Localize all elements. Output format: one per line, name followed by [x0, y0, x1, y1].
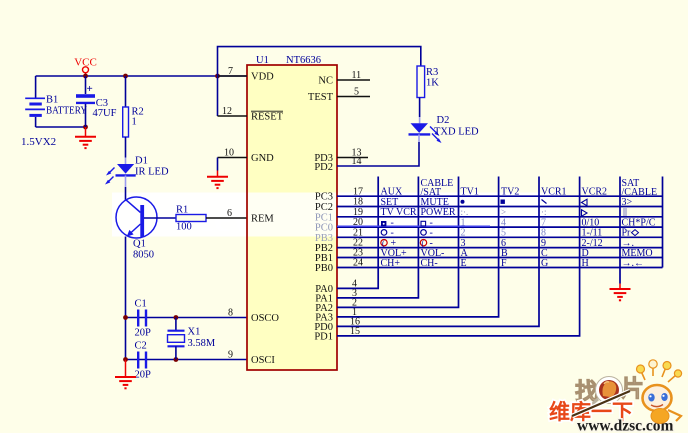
svg-text:G: G — [541, 258, 548, 269]
pin 10 GND — [218, 148, 275, 165]
table row 23 cells — [381, 248, 653, 259]
svg-text:9: 9 — [228, 350, 233, 361]
svg-text:+: + — [87, 83, 93, 95]
wire VCC to R2 — [125, 76, 127, 107]
watermark underline stroke — [337, 225, 490, 227]
ground under C3 — [75, 127, 96, 148]
wire OSCO — [126, 317, 248, 319]
resistor R2 — [123, 107, 144, 138]
wire row pin 18 PC2 — [315, 197, 663, 213]
svg-text:7: 7 — [228, 66, 233, 77]
svg-text:TV1: TV1 — [461, 186, 479, 197]
table row 18 cells — [381, 197, 633, 208]
table row 19 cells — [381, 207, 628, 218]
wire column VCR1 pin 16 PD0 — [314, 177, 539, 333]
svg-text:3.58M: 3.58M — [188, 338, 216, 349]
pin 11 NC — [318, 70, 370, 87]
pin 9 OSCI — [228, 350, 275, 367]
watermark band — [112, 193, 560, 241]
mascot — [572, 360, 682, 424]
wire row pin 20 PC0 — [315, 217, 663, 233]
svg-text:E: E — [461, 258, 467, 269]
wire row pin 24 PB0 — [315, 258, 663, 274]
wire column VCR2 pin 15 PD1 — [314, 177, 579, 343]
capacitor C1 20P — [135, 299, 152, 339]
svg-text:→.←: →.← — [622, 258, 645, 269]
table row 20 cells — [381, 217, 656, 228]
wire row pin 21 PB3 — [315, 227, 663, 243]
battery B1 — [25, 76, 87, 127]
svg-text:6: 6 — [227, 208, 232, 219]
LED D2 TXD LED — [409, 115, 480, 143]
wire column AUX pin 4 PA0 — [315, 177, 378, 295]
svg-text:CH-: CH- — [421, 258, 438, 269]
pin 12 RESET — [218, 106, 284, 123]
junction node C2 left — [123, 357, 128, 362]
resistor R1 100 — [144, 205, 206, 233]
svg-text:5: 5 — [354, 87, 359, 98]
svg-text:D1: D1 — [135, 156, 148, 167]
svg-text:TEST: TEST — [308, 92, 334, 103]
svg-text:20P: 20P — [135, 370, 152, 381]
svg-text:OSCO: OSCO — [251, 313, 279, 324]
svg-text:1.5VX2: 1.5VX2 — [21, 136, 56, 148]
wire VDD to RESET — [217, 76, 219, 116]
svg-text:VCR1: VCR1 — [541, 186, 567, 197]
watermark band over IC — [248, 193, 336, 237]
svg-text:10: 10 — [224, 148, 234, 159]
svg-text:(: ( — [422, 239, 425, 248]
svg-text:BATTERY: BATTERY — [46, 106, 87, 117]
junction node X1 bottom — [174, 357, 179, 362]
svg-text:TV2: TV2 — [501, 186, 519, 197]
svg-text:U1: U1 — [256, 55, 269, 66]
svg-text:24: 24 — [353, 258, 363, 269]
svg-text::·.: :·. — [461, 207, 469, 217]
wire VCC to R3 top rail — [218, 47, 421, 76]
crystal X1 3.58M — [168, 318, 216, 360]
wire column TV1 pin 2 PA2 — [315, 177, 458, 314]
wire OSCI — [126, 359, 248, 361]
wire R3 to D2 — [419, 98, 421, 118]
wire column CABLE/SAT pin 3 PA1 — [315, 177, 418, 305]
svg-text:47UF: 47UF — [93, 108, 117, 119]
LED D1 IR LED — [105, 156, 169, 185]
ground under SAT/CABLE column — [610, 284, 631, 301]
table row 24 cells — [381, 258, 645, 269]
pin 14 PD2 — [314, 156, 361, 173]
svg-text:·:: ·: — [541, 207, 547, 217]
wire R2 to D1 — [125, 137, 127, 158]
svg-text:R1: R1 — [176, 205, 188, 216]
svg-text:PB0: PB0 — [315, 263, 333, 274]
svg-text:15: 15 — [350, 326, 360, 337]
svg-text:REM: REM — [251, 214, 274, 225]
svg-text:VCR2: VCR2 — [582, 186, 608, 197]
svg-text:C1: C1 — [135, 299, 147, 310]
ground under C2/emitter — [115, 360, 136, 389]
transistor Q1 8050 — [116, 197, 157, 261]
svg-text:PD1: PD1 — [314, 331, 333, 342]
svg-text:片: 片 — [621, 376, 644, 401]
svg-text:AUX: AUX — [381, 186, 403, 197]
wire VDD bus — [36, 75, 247, 77]
svg-text:100: 100 — [176, 222, 192, 233]
svg-text:GND: GND — [251, 153, 274, 164]
wire row pin 22 PB2 — [315, 238, 663, 254]
svg-text:PC2: PC2 — [315, 202, 333, 213]
pin 13 PD3 — [314, 148, 368, 165]
svg-text:1: 1 — [132, 117, 137, 128]
pin 8 OSCO — [228, 308, 279, 325]
svg-text:VDD: VDD — [251, 72, 274, 83]
table row 22 cells — [381, 238, 634, 249]
wire D1 to Q1 collector — [125, 175, 127, 187]
svg-text:14: 14 — [352, 156, 362, 167]
wire row pin 23 PB1 — [315, 248, 663, 264]
svg-text:PD2: PD2 — [314, 162, 333, 173]
junction node X1 top — [174, 315, 179, 320]
svg-text:R3: R3 — [426, 67, 438, 78]
svg-text:8050: 8050 — [133, 250, 154, 261]
ground at pin 10 — [207, 158, 228, 189]
svg-text:D2: D2 — [437, 115, 450, 126]
wire column TV2 pin 1 PA3 — [315, 177, 498, 324]
pin 5 TEST — [308, 87, 370, 104]
svg-text:H: H — [582, 258, 589, 269]
svg-text:POWER: POWER — [421, 207, 456, 218]
wire row pin 19 PC1 — [315, 207, 663, 223]
table header row labels — [381, 178, 658, 198]
svg-text:20P: 20P — [135, 328, 152, 339]
svg-text:(: ( — [382, 239, 385, 248]
svg-text:NC: NC — [318, 76, 333, 87]
pin 7 VDD — [218, 66, 275, 83]
wire battery bottom — [36, 126, 86, 128]
capacitor C3 47UF — [76, 76, 117, 127]
svg-text:B1: B1 — [46, 95, 58, 106]
wire row pin 17 PC3 — [315, 186, 663, 202]
junction node C1 left — [123, 315, 128, 320]
svg-text:RESET: RESET — [251, 112, 284, 123]
wire D2 to pin 14 — [418, 134, 420, 142]
svg-text:1K: 1K — [426, 78, 439, 89]
svg-text:X1: X1 — [188, 327, 201, 338]
junction node R2 tap — [123, 74, 128, 79]
IC U1 NT6636 — [247, 55, 337, 370]
svg-text:IR LED: IR LED — [135, 167, 169, 178]
junction node RESET/R3 tap — [215, 74, 220, 79]
svg-text:C2: C2 — [135, 341, 147, 352]
resistor R3 1K — [417, 66, 439, 98]
watermark logo bottom right — [549, 360, 682, 433]
svg-text:NT6636: NT6636 — [286, 55, 321, 66]
wire column SAT/CABLE — [619, 177, 621, 284]
svg-text:F: F — [501, 258, 507, 269]
power VCC — [74, 57, 97, 77]
wire Q1 emitter down — [125, 237, 127, 360]
svg-text:8: 8 — [228, 308, 233, 319]
svg-text:12: 12 — [222, 106, 232, 117]
junction node VCC/C3 — [83, 74, 88, 79]
table right border — [662, 177, 664, 268]
svg-text:11: 11 — [352, 70, 362, 81]
table row 21 cells — [381, 228, 638, 239]
capacitor C2 20P — [135, 341, 152, 381]
svg-text:Q1: Q1 — [133, 239, 146, 250]
svg-text:CH+: CH+ — [381, 258, 401, 269]
junction node C3 bottom — [83, 125, 88, 130]
wire R1 to REM pin 6 — [206, 217, 247, 219]
svg-text:>: > — [501, 207, 506, 217]
svg-text:TV VCR: TV VCR — [381, 207, 417, 218]
svg-text:OSCI: OSCI — [251, 355, 275, 366]
svg-text:TXD LED: TXD LED — [434, 127, 479, 138]
